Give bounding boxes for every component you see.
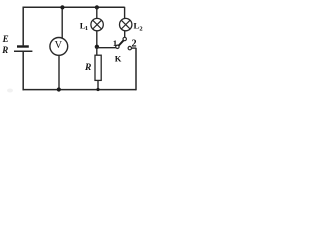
wire voltmeter branch upper xyxy=(61,7,63,38)
wire node A to switch contact 1 xyxy=(97,47,116,49)
switch K contact 2 terminal xyxy=(128,46,131,49)
wire pivot up to lamp L2 xyxy=(124,31,126,37)
junction dot top lamp L1 branch xyxy=(95,5,99,9)
svg-text:R: R xyxy=(1,45,8,55)
label L1 xyxy=(80,20,88,32)
wire contact 2 jog to right rail xyxy=(132,47,137,49)
switch K blade xyxy=(119,40,124,45)
wire voltmeter branch lower xyxy=(58,55,60,90)
lamp L1 xyxy=(91,18,103,30)
svg-text:E: E xyxy=(2,34,9,44)
battery E,R plate short thick xyxy=(17,45,29,47)
junction dot bottom voltmeter branch xyxy=(57,87,61,91)
svg-text:R: R xyxy=(84,63,91,73)
svg-text:1: 1 xyxy=(113,38,117,48)
switch K pivot terminal xyxy=(123,37,126,40)
junction dot resistor bottom xyxy=(96,88,99,91)
wire left vertical lower xyxy=(22,51,24,90)
svg-text:2: 2 xyxy=(139,25,142,32)
wire left vertical upper (battery top) xyxy=(22,7,24,46)
svg-text:V: V xyxy=(55,40,63,51)
wire top-right downturn to lamp L2 xyxy=(124,7,126,19)
wire lamp L1 branch upper xyxy=(96,7,98,19)
wire bottom horizontal xyxy=(23,89,137,91)
switch K contact 1 terminal xyxy=(116,45,119,48)
scan smudge bottom-left xyxy=(7,89,13,93)
junction dot top voltmeter branch xyxy=(60,5,64,9)
wire top horizontal xyxy=(23,6,125,8)
wire node A down to resistor R xyxy=(96,47,98,55)
voltmeter V xyxy=(50,38,68,56)
resistor R xyxy=(95,55,101,80)
wire right vertical xyxy=(135,48,137,90)
node A junction dot xyxy=(95,45,99,49)
svg-text:K: K xyxy=(115,53,122,63)
wire resistor R to bottom xyxy=(97,80,99,90)
lamp L2 xyxy=(120,18,132,30)
battery plate long thin xyxy=(14,50,32,52)
svg-text:1: 1 xyxy=(85,25,88,32)
label L2 xyxy=(134,21,143,33)
wire lamp L1 to node A xyxy=(96,31,98,47)
